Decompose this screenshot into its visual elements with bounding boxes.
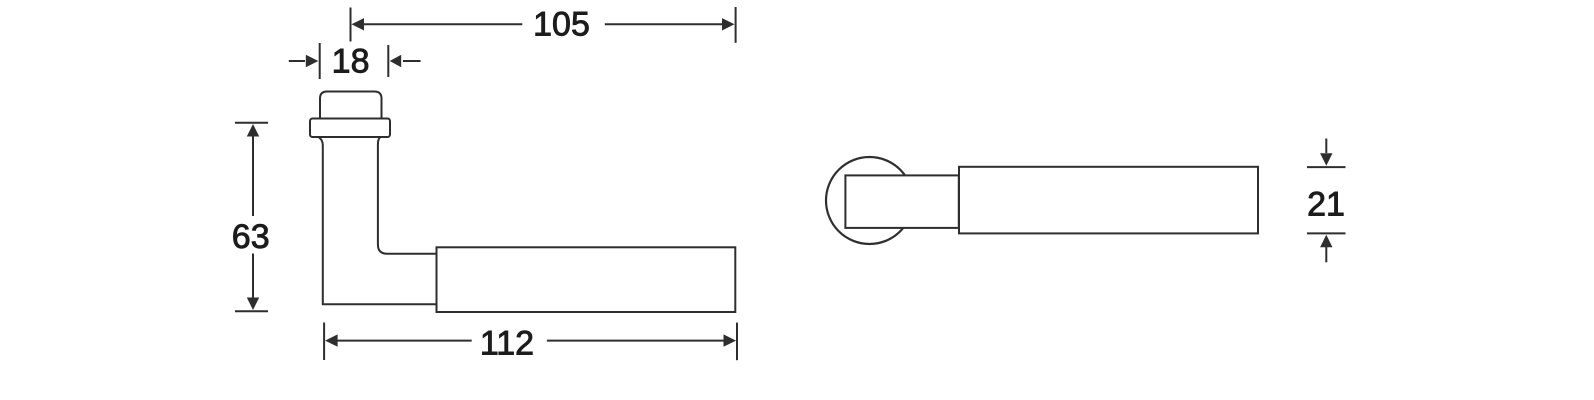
handle side view: flange [310, 119, 390, 138]
dim 63: dimension line lower segment [252, 254, 254, 301]
dim 112: left arrowhead [325, 334, 338, 346]
dim 18: left extension tick [319, 43, 321, 79]
dim 21: bottom arrowhead pointing up [1320, 235, 1332, 248]
dim 105: left arrowhead [352, 18, 365, 30]
dim 112: left extension tick [323, 323, 325, 361]
dim 112: right extension tick [736, 323, 738, 361]
dim 63: bottom extension tick [235, 310, 268, 312]
dim 18: left arrowhead pointing right [306, 55, 319, 67]
dim 63: top arrowhead pointing up [247, 124, 259, 137]
handle side view: cap [320, 92, 382, 123]
svg-text:18: 18 [332, 42, 370, 80]
dim 21: bottom outside line [1325, 247, 1327, 262]
svg-text:105: 105 [533, 6, 590, 44]
dim 112: right arrowhead [724, 334, 737, 346]
dim 105: right arrowhead [722, 18, 735, 30]
dim 21: bottom extension tick [1307, 232, 1346, 234]
dim 105: right extension tick [735, 7, 737, 43]
dim 63: dimension line upper segment [252, 135, 254, 216]
dim 105: left extension tick [350, 8, 352, 42]
handle side view: neck and bend outline [319, 137, 437, 304]
dim 63: top extension tick [235, 122, 268, 124]
svg-text:21: 21 [1307, 185, 1345, 223]
dim 112: dimension line right segment [547, 340, 725, 342]
front view: lever grip bar [959, 167, 1258, 234]
dim 63: bottom arrowhead pointing down [247, 298, 259, 311]
dim 18: right outside line [403, 60, 421, 62]
dim 18: left outside line [289, 60, 305, 62]
dim 105: dimension line left segment [362, 23, 522, 25]
dim 112: dimension line left segment [336, 340, 472, 342]
dim 18: right extension tick [387, 45, 389, 77]
front view: neck rectangle over rose [845, 175, 958, 228]
dim 105: dimension line right segment [605, 23, 726, 25]
dim 21: top outside line [1325, 139, 1327, 154]
dim 21: top extension tick [1307, 166, 1346, 168]
svg-text:112: 112 [480, 325, 534, 363]
dim 21: top arrowhead pointing down [1320, 153, 1332, 166]
dim 18: right arrowhead pointing left [390, 55, 402, 67]
svg-text:63: 63 [232, 218, 270, 256]
handle side view: lever grip bar [437, 247, 736, 312]
rose circle (front view) [826, 157, 913, 244]
